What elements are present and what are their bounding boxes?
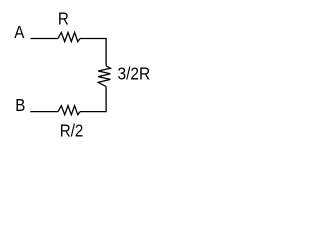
wire from resistor 3/2R to bottom-right corner <box>80 87 106 112</box>
resistor R/2 <box>58 106 80 115</box>
wire from B to resistor R/2 <box>30 111 58 113</box>
resistor 3/2R <box>98 66 110 87</box>
wire from resistor R to top-right corner <box>80 39 106 66</box>
svg-text:R/2: R/2 <box>60 121 84 140</box>
svg-text:B: B <box>15 96 25 115</box>
svg-text:R: R <box>58 10 69 29</box>
svg-text:3/2R: 3/2R <box>118 65 151 84</box>
svg-text:A: A <box>14 23 24 42</box>
wire from A to resistor R <box>31 38 59 40</box>
resistor R <box>58 32 80 41</box>
